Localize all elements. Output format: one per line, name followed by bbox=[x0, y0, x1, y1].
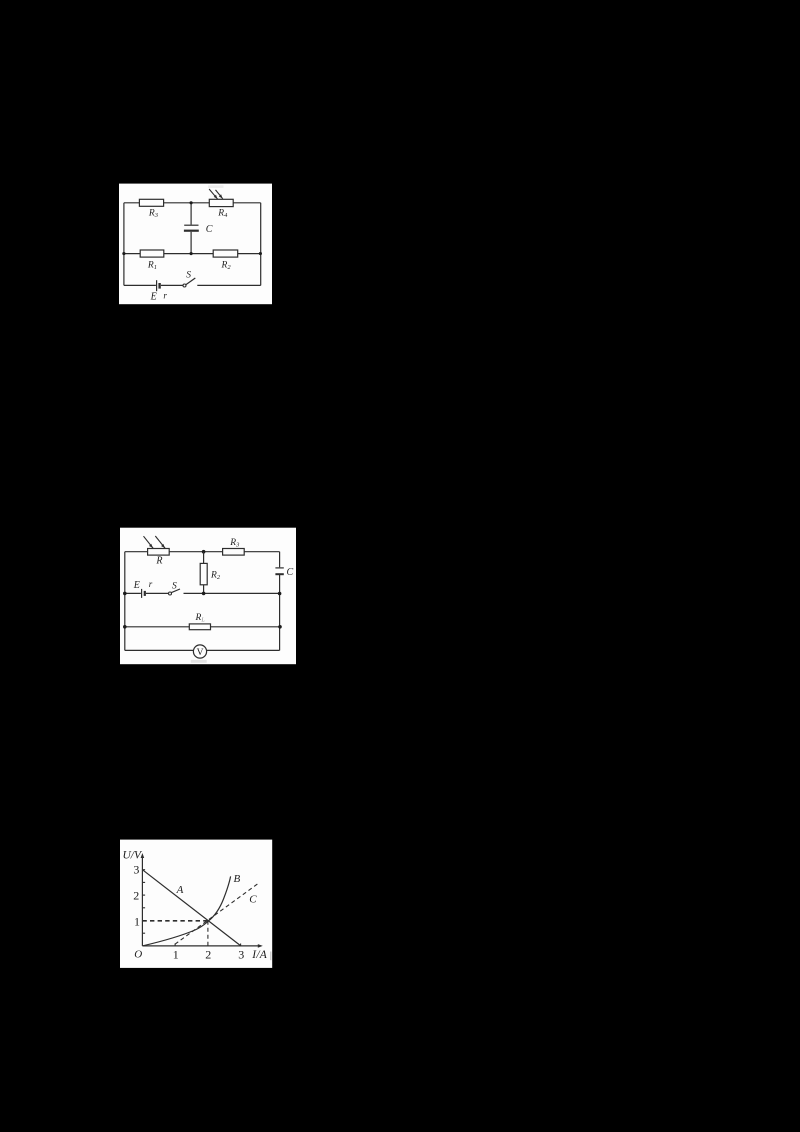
resistor RL panel2 bbox=[189, 613, 210, 630]
wire right side upper panel2 bbox=[279, 552, 281, 568]
line A bbox=[142, 870, 240, 946]
photoresistor R4 bbox=[209, 199, 233, 219]
wire bottom row center panel1 bbox=[161, 284, 183, 286]
dashed vertical at I=2 bbox=[207, 921, 209, 946]
resistor R3 panel2 bbox=[223, 538, 245, 555]
x tick 3 bbox=[240, 944, 242, 946]
wire middle row right panel2 bbox=[184, 592, 280, 594]
resistor R3 bbox=[139, 199, 163, 219]
svg-text:C: C bbox=[287, 567, 294, 578]
svg-text:3: 3 bbox=[133, 862, 139, 876]
node dot RL row left panel2 bbox=[123, 625, 127, 629]
wire R2 branch lower panel2 bbox=[203, 585, 205, 594]
voltmeter V bbox=[193, 645, 206, 658]
wire bottom row right panel1 bbox=[197, 284, 260, 286]
svg-text:1: 1 bbox=[173, 948, 179, 962]
gray artifact above arrows panel1 bbox=[208, 185, 224, 188]
capacitor C branch wire upper bbox=[190, 203, 192, 225]
wire right side lower panel2 bbox=[279, 575, 281, 651]
svg-text:A: A bbox=[176, 884, 184, 896]
wire RL row panel2 bbox=[125, 626, 280, 628]
svg-text:S: S bbox=[186, 271, 191, 281]
light arrow 2 on R bbox=[155, 536, 165, 549]
x axis I/A bbox=[142, 944, 267, 961]
y tick 1.5 bbox=[142, 907, 145, 909]
svg-text:2: 2 bbox=[205, 948, 211, 962]
capacitor C branch wire lower bbox=[190, 232, 192, 254]
y tick 2 bbox=[142, 894, 145, 896]
svg-text:R: R bbox=[155, 556, 162, 567]
node dot middle center panel1 bbox=[190, 252, 193, 255]
y axis U/V bbox=[123, 850, 145, 946]
gray artifact below voltmeter bbox=[191, 660, 207, 663]
svg-text:E: E bbox=[150, 292, 157, 303]
light arrow 1 on R4 bbox=[209, 189, 218, 199]
wire left side panel2 bbox=[124, 552, 126, 651]
svg-text:S: S bbox=[172, 582, 177, 592]
battery E r panel2 bbox=[133, 579, 153, 598]
y tick 3 bbox=[142, 869, 145, 871]
svg-text:C: C bbox=[206, 224, 213, 235]
panel 1 background bbox=[119, 184, 272, 305]
dashed horizontal at U=1 bbox=[142, 920, 208, 922]
svg-text:O: O bbox=[134, 949, 142, 961]
node dot middle right panel2 bbox=[278, 592, 282, 596]
svg-text:1: 1 bbox=[134, 914, 140, 928]
switch S panel2 bbox=[169, 582, 181, 596]
curve B bbox=[142, 873, 240, 946]
svg-text:r: r bbox=[163, 290, 167, 300]
wire middle row panel1 bbox=[124, 253, 261, 255]
node dot top middle panel2 bbox=[202, 550, 206, 554]
wire top row panel1 bbox=[124, 202, 261, 204]
x tick 1 bbox=[174, 944, 176, 946]
wire middle row between battery and switch panel2 bbox=[146, 592, 169, 594]
wire right side panel1 bbox=[260, 203, 262, 286]
svg-text:C: C bbox=[249, 894, 257, 906]
resistor R2 panel2 (vertical) bbox=[200, 563, 221, 584]
svg-text:3: 3 bbox=[238, 948, 244, 962]
svg-text:V: V bbox=[197, 648, 204, 658]
node dot middle center panel2 bbox=[202, 592, 206, 596]
y tick 0.5 bbox=[142, 932, 145, 934]
battery E r panel1 bbox=[150, 280, 168, 302]
wire middle row left panel2 bbox=[125, 592, 141, 594]
node dot middle left panel2 bbox=[123, 592, 127, 596]
wire left side panel1 bbox=[123, 203, 125, 286]
resistor R2 bbox=[213, 250, 238, 271]
wire bottom row panel2 bbox=[125, 649, 280, 651]
gray artifact right of I/A bbox=[270, 952, 272, 961]
dashed line C bbox=[175, 884, 257, 944]
capacitor C bbox=[184, 224, 213, 235]
panel 3 background bbox=[120, 840, 272, 968]
panel 2 background bbox=[120, 528, 296, 665]
switch S panel1 bbox=[183, 271, 195, 287]
y tick 2.5 bbox=[142, 881, 145, 883]
wire R2 branch upper panel2 bbox=[203, 552, 205, 564]
node dot middle right panel1 bbox=[259, 252, 262, 255]
svg-text:E: E bbox=[133, 580, 140, 591]
resistor R1 bbox=[140, 250, 164, 271]
light arrow 2 on R4 bbox=[216, 190, 223, 199]
svg-text:2: 2 bbox=[133, 889, 139, 903]
node dot top middle panel1 bbox=[190, 201, 193, 204]
wire bottom row left panel1 bbox=[124, 284, 156, 286]
svg-text:B: B bbox=[234, 873, 241, 885]
svg-text:U/V: U/V bbox=[123, 850, 144, 862]
svg-text:r: r bbox=[149, 579, 153, 589]
node dot RL row right panel2 bbox=[278, 625, 282, 629]
photoresistor R bbox=[148, 549, 170, 567]
capacitor C panel2 bbox=[275, 567, 293, 578]
svg-text:I/A: I/A bbox=[251, 949, 268, 961]
wire top row panel2 bbox=[125, 551, 280, 553]
node dot middle left panel1 bbox=[122, 252, 125, 255]
light arrow 1 on R bbox=[144, 536, 154, 548]
